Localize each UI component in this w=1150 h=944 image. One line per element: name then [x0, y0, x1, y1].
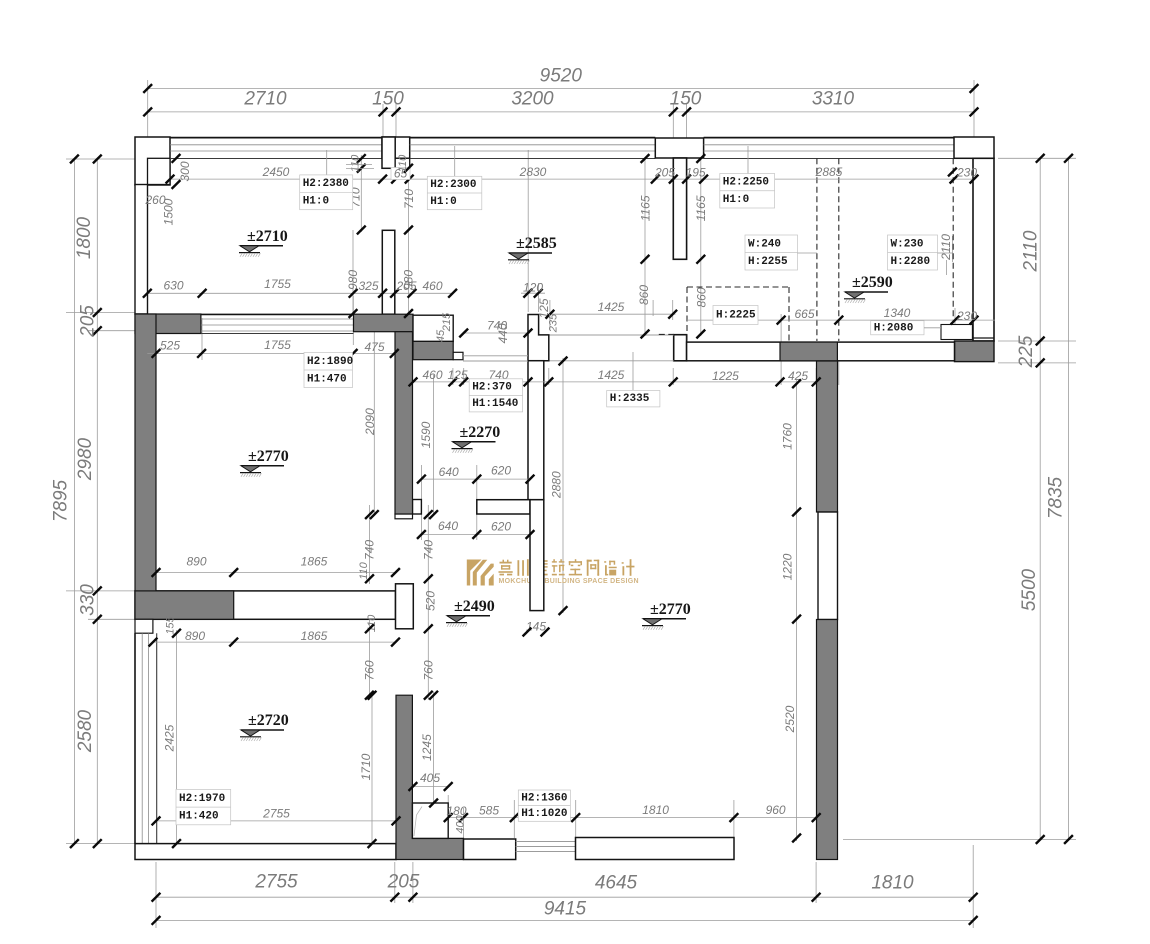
vertical dims 110/710 (right of wall W5)	[404, 164, 413, 173]
svg-text:H2:1360: H2:1360	[521, 792, 567, 804]
dimension row y353: 525/1755/475	[147, 352, 394, 354]
svg-text:760: 760	[421, 660, 435, 680]
wall: divider end cap column	[396, 584, 414, 629]
dimension column: 1800/205/2980/330/2580 (left inner)	[96, 159, 98, 844]
svg-text:150: 150	[372, 89, 404, 110]
svg-text:3200: 3200	[511, 89, 554, 110]
svg-text:H2:2250: H2:2250	[723, 177, 769, 189]
svg-text:1755: 1755	[264, 277, 291, 291]
svg-text:H1:1020: H1:1020	[521, 808, 567, 820]
svg-text:860: 860	[695, 287, 709, 307]
svg-text:9520: 9520	[540, 66, 583, 87]
wall: gray arm2 (kitchen south-west)	[413, 341, 453, 359]
svg-text:980: 980	[402, 270, 416, 290]
svg-text:740: 740	[421, 540, 435, 560]
wall: small box below divider	[135, 619, 153, 633]
opening: dining-hall pass (thin lines)	[549, 334, 674, 336]
svg-text:2710: 2710	[243, 89, 287, 110]
tick 230 window top	[948, 168, 957, 177]
vertical dims 740/740 (door bedroom2)	[365, 510, 374, 519]
svg-text:H:2080: H:2080	[874, 322, 914, 334]
dimension row y382: 460/125/740/1425/1225/425	[413, 381, 816, 383]
svg-text:325: 325	[358, 279, 378, 293]
svg-text:520: 520	[424, 591, 438, 611]
label box W:230/H:2280	[888, 235, 938, 270]
svg-text:630: 630	[163, 279, 183, 293]
svg-text:2090: 2090	[363, 408, 377, 436]
dimension row y817: 180/585/1810/960	[448, 817, 816, 819]
label box H2:1890/H1:470	[304, 353, 353, 388]
svg-text:740: 740	[363, 540, 377, 560]
svg-text:110: 110	[350, 154, 362, 172]
svg-text:H:2255: H:2255	[748, 256, 788, 268]
svg-text:H:2335: H:2335	[610, 393, 650, 405]
wall: gray vertical bar (hall west)	[395, 332, 413, 514]
dimension 405 (entry)	[413, 786, 448, 788]
label box H2:2300/H1:0	[454, 146, 456, 176]
svg-text:H:2225: H:2225	[716, 310, 756, 322]
svg-text:2885: 2885	[815, 165, 843, 179]
svg-text:2755: 2755	[262, 807, 290, 821]
svg-text:460: 460	[422, 368, 442, 382]
window box kitchen west	[413, 315, 453, 341]
svg-text:2880: 2880	[550, 471, 564, 499]
svg-text:1865: 1865	[301, 555, 328, 569]
svg-text:4645: 4645	[595, 873, 638, 894]
dimension row y293: 630/1755/325/205/460	[147, 292, 452, 294]
window: right lower white section	[818, 512, 838, 620]
svg-text:620: 620	[491, 464, 511, 478]
wall: right lower gray (upper)	[817, 361, 838, 512]
label box H2:1360/H1:1020	[518, 790, 570, 821]
label box H:2080	[871, 321, 924, 335]
svg-text:2520: 2520	[783, 705, 797, 733]
wall: right wall vertical (white)	[973, 158, 994, 341]
wall: gray bar1 (hall north)	[354, 314, 414, 332]
svg-text:155: 155	[165, 615, 177, 634]
wall: partition below column2 (x382-395)	[382, 230, 395, 314]
svg-text:405: 405	[420, 771, 440, 785]
svg-text:5500: 5500	[1019, 568, 1040, 611]
vertical dims 110/710 (left of wall W5)	[357, 154, 366, 163]
svg-text:665: 665	[794, 307, 814, 321]
wall: gray segment in bottom wall	[780, 342, 837, 361]
vertical dims 760/760	[365, 624, 374, 633]
svg-text:W:230: W:230	[891, 238, 924, 250]
wall: gray-bar white cap	[395, 514, 413, 519]
wall: bedroom divider (white part)	[135, 591, 396, 619]
wall: entry south white segment	[464, 839, 516, 860]
svg-text:440: 440	[496, 323, 510, 343]
svg-text:±2770: ±2770	[650, 601, 691, 618]
svg-text:980: 980	[346, 270, 360, 290]
svg-text:1810: 1810	[871, 873, 914, 894]
dimension row y572: 890/1865	[156, 572, 396, 574]
svg-text:890: 890	[186, 555, 206, 569]
svg-text:225: 225	[1016, 335, 1037, 368]
svg-text:1425: 1425	[598, 368, 625, 382]
svg-text:7895: 7895	[51, 479, 72, 522]
label box H:2335	[607, 391, 660, 407]
dim 120/125 at kitchen top	[521, 292, 545, 294]
wall: white notch next to arm2	[453, 352, 463, 359]
svg-text:110: 110	[358, 561, 370, 579]
svg-text:1755: 1755	[264, 338, 291, 352]
label box H2:1970/H1:420	[176, 789, 231, 824]
svg-text:1810: 1810	[642, 803, 669, 817]
svg-text:2980: 2980	[75, 437, 96, 481]
svg-text:235: 235	[548, 313, 560, 333]
svg-text:150: 150	[670, 89, 702, 110]
window band: top wall right (4 lines)	[704, 137, 954, 139]
svg-text:H2:2380: H2:2380	[303, 178, 349, 190]
svg-text:205: 205	[78, 305, 99, 338]
svg-text:620: 620	[491, 520, 511, 534]
dimension 2755 interior (y821)	[156, 820, 396, 822]
svg-text:H2:1890: H2:1890	[307, 356, 353, 368]
svg-text:H1:470: H1:470	[307, 373, 347, 385]
svg-text:±2270: ±2270	[460, 424, 501, 441]
label box H:2225	[713, 306, 758, 325]
svg-text:9415: 9415	[544, 899, 587, 920]
vertical dims 1760/1220/2520 (right wall)	[792, 379, 801, 388]
svg-text:760: 760	[362, 660, 376, 680]
wall: T-column with stem	[655, 138, 703, 158]
svg-text:2830: 2830	[519, 165, 547, 179]
svg-text:525: 525	[160, 339, 180, 353]
svg-text:2425: 2425	[163, 724, 177, 752]
svg-text:120: 120	[523, 281, 543, 295]
window band: top wall middle (4 lines)	[410, 137, 656, 139]
svg-text:195: 195	[686, 165, 706, 179]
svg-text:110: 110	[397, 154, 409, 172]
dimension row: 9415 (bottom outer)	[156, 919, 973, 921]
svg-text:H:2280: H:2280	[891, 256, 931, 268]
logo MOKCHUEN (gold icon + CJK wordmark + latin subtitle)	[467, 560, 482, 586]
wall: small pillar (bath door)	[413, 500, 422, 515]
wall: kitchen east wall mid	[528, 361, 544, 500]
wall: kitchen east wall upper	[528, 315, 549, 361]
svg-text:W:240: W:240	[748, 238, 781, 250]
wall: right wall inner face line	[973, 337, 994, 339]
dim label 65 (boxed)	[391, 168, 410, 180]
window band: bedroom3 west (4 lines)	[134, 633, 136, 843]
svg-text:400: 400	[455, 814, 467, 833]
svg-text:1425: 1425	[598, 300, 625, 314]
svg-text:890: 890	[185, 629, 205, 643]
dimension row y534: 640/620	[421, 534, 530, 536]
svg-text:960: 960	[766, 803, 786, 817]
svg-text:±2710: ±2710	[247, 228, 288, 245]
svg-text:205: 205	[387, 872, 420, 893]
window band: top wall left (4 lines)	[170, 137, 383, 139]
opening: entry threshold lines	[516, 841, 576, 843]
svg-text:H1:420: H1:420	[179, 810, 219, 822]
dashed: wardrobe outline (top-right room)	[687, 286, 789, 288]
svg-text:710: 710	[402, 189, 416, 209]
svg-text:±2585: ±2585	[516, 235, 557, 252]
svg-text:2110: 2110	[939, 234, 953, 261]
wall: kitchen east wall lower	[530, 500, 544, 611]
svg-text:1340: 1340	[884, 306, 911, 320]
svg-text:1245: 1245	[420, 734, 434, 761]
svg-text:125: 125	[447, 368, 467, 382]
svg-text:475: 475	[364, 340, 384, 354]
svg-text:330: 330	[78, 584, 99, 616]
svg-text:640: 640	[439, 465, 459, 479]
svg-text:H1:1540: H1:1540	[472, 398, 518, 410]
svg-text:640: 640	[438, 519, 458, 533]
dashed: line near right wall	[952, 158, 954, 322]
label box H2:2380/H1:0	[326, 150, 328, 175]
svg-text:460: 460	[422, 279, 442, 293]
wall: right wall gray base	[955, 341, 995, 362]
window sill box (right)	[941, 325, 972, 340]
svg-text:215: 215	[441, 312, 453, 332]
svg-text:2110: 2110	[1021, 230, 1042, 272]
svg-text:3310: 3310	[812, 89, 855, 110]
dimension row y642: 890/1865	[153, 641, 396, 643]
label box H2:370/H1:1540	[469, 379, 522, 412]
svg-text:1590: 1590	[419, 421, 433, 448]
window band: bedroom1 south	[201, 313, 354, 315]
wall: gray left wall (bedroom2)	[135, 314, 156, 591]
svg-text:1500: 1500	[162, 198, 176, 225]
svg-text:45: 45	[435, 329, 447, 342]
svg-text:±2720: ±2720	[248, 712, 289, 729]
wall: top-left corner column	[135, 137, 170, 185]
svg-text:230: 230	[956, 165, 977, 179]
wall: top column 2 (at 150 gap)	[382, 137, 410, 158]
small dims 740/440/215/45/235 (kitchen top)	[464, 332, 530, 334]
wall: entry gray L	[396, 695, 464, 859]
opening: kitchen door sill lines	[463, 355, 528, 357]
dimension row y320: 665/1340/230	[687, 319, 995, 321]
svg-text:H2:370: H2:370	[472, 382, 512, 394]
extension lines (light thin)	[147, 80, 149, 137]
svg-text:±2490: ±2490	[454, 598, 495, 615]
svg-text:H1:0: H1:0	[303, 196, 329, 208]
wall: left wall upper segment	[135, 185, 148, 315]
door: entry door leaf+swing	[412, 803, 448, 838]
vertical dims 1165/860 pair (closet)	[641, 154, 650, 163]
svg-text:1865: 1865	[301, 629, 328, 643]
svg-text:H2:2300: H2:2300	[430, 179, 476, 191]
wall: top-right room bottom wall (white)	[687, 342, 955, 361]
svg-text:H1:0: H1:0	[723, 194, 749, 206]
dimension column: 7835 (right outer)	[1068, 158, 1070, 839]
dimension row: 2755/205/4645/1810 (bottom)	[156, 896, 973, 898]
dimension column: 2110/225/5500 (right inner)	[1039, 158, 1041, 839]
svg-text:230: 230	[956, 309, 977, 323]
svg-text:2580: 2580	[75, 709, 96, 753]
svg-text:1760: 1760	[781, 423, 795, 450]
dimension row: 9520 (top outer)	[148, 88, 974, 90]
svg-text:1710: 1710	[359, 753, 373, 780]
dimension row: 2710/150/3200/150/3310	[148, 111, 974, 113]
wall: pillar left end (bottom of closet wall)	[674, 335, 687, 361]
svg-text:7835: 7835	[1046, 476, 1067, 519]
svg-text:1220: 1220	[781, 553, 795, 580]
wall: bedroom divider gray part	[135, 591, 234, 619]
svg-text:1225: 1225	[712, 369, 739, 383]
svg-text:860: 860	[637, 285, 651, 305]
wall: bath south stub	[477, 500, 530, 514]
wall: right lower gray (lower)	[817, 620, 838, 860]
svg-text:1165: 1165	[638, 195, 652, 221]
svg-text:±2770: ±2770	[248, 448, 289, 465]
label box H2:2250/H1:0	[747, 146, 749, 174]
svg-text:H1:0: H1:0	[430, 196, 456, 208]
dimension 1425 (y314)	[550, 313, 676, 315]
dimension row y179: 2450/65/2830/205/195/2885/230	[170, 178, 974, 180]
svg-text:585: 585	[479, 804, 499, 818]
label box W:240/H:2255	[745, 235, 798, 270]
svg-text:H2:1970: H2:1970	[179, 793, 225, 805]
wall: bedroom3 south	[135, 844, 396, 860]
dashed: partition pair x817/839	[816, 158, 818, 341]
svg-text:2450: 2450	[262, 165, 290, 179]
svg-text:MOKCHUEN BUILDING SPACE DESIGN: MOKCHUEN BUILDING SPACE DESIGN	[499, 578, 639, 585]
wall: gray band bedroom1 south (left)	[135, 314, 201, 334]
dimension row y479: 640/620	[421, 478, 530, 480]
wall: right wall top corner	[954, 137, 994, 158]
svg-text:1165: 1165	[694, 195, 708, 221]
dimension column: 7895 (left outer)	[73, 159, 75, 844]
svg-text:±2590: ±2590	[852, 274, 893, 291]
svg-text:1800: 1800	[74, 216, 95, 259]
svg-text:205: 205	[654, 165, 675, 179]
svg-text:2755: 2755	[254, 872, 298, 893]
wall: south wall long segment	[576, 838, 735, 860]
svg-text:300: 300	[178, 161, 192, 181]
